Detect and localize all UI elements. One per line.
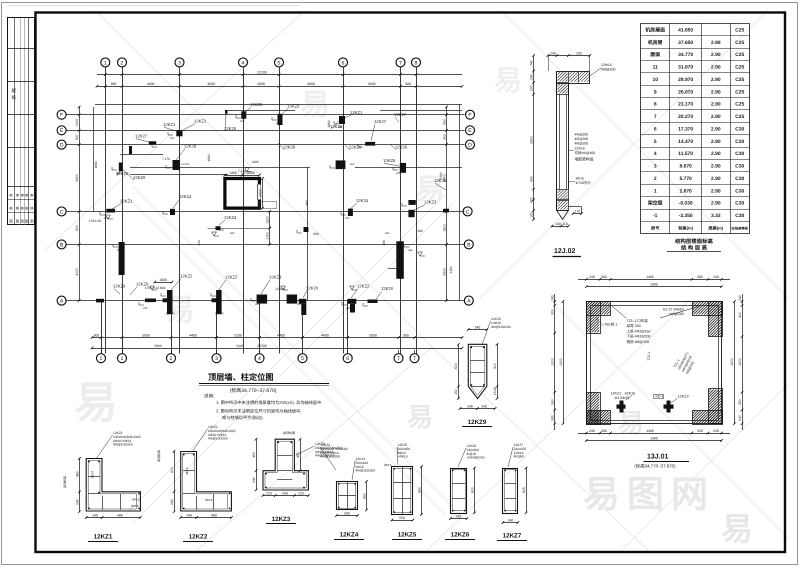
svg-text:12.603: 12.603	[166, 312, 175, 316]
svg-text:900: 900	[75, 225, 79, 231]
left title strip	[8, 18, 35, 225]
plan left dims	[79, 107, 81, 301]
svg-text:5: 5	[654, 139, 657, 145]
column block 28	[368, 300, 378, 304]
column block 24	[287, 295, 298, 304]
svg-text:10: 10	[652, 77, 658, 83]
column block 5	[225, 110, 228, 114]
svg-text:12KZ1: 12KZ1	[163, 122, 176, 127]
detail 12KZ3 T-shaped wall column	[263, 439, 308, 490]
svg-text:2.90: 2.90	[711, 52, 721, 58]
svg-text:5000: 5000	[142, 333, 150, 337]
svg-text:C25: C25	[735, 114, 744, 120]
svg-text:C25: C25	[735, 77, 744, 83]
svg-text:C25: C25	[735, 102, 744, 108]
axis bubble top 1	[101, 58, 110, 67]
svg-text:180: 180	[417, 229, 423, 233]
svg-text:C30: C30	[735, 176, 744, 182]
column block 26	[299, 299, 307, 304]
svg-text:1200: 1200	[75, 119, 79, 127]
svg-text:12KZ6: 12KZ6	[451, 532, 470, 539]
svg-text:C: C	[60, 209, 64, 215]
svg-text:C25: C25	[735, 89, 744, 95]
svg-text:5: 5	[278, 60, 281, 66]
stair well outline	[260, 202, 277, 209]
axis bubble top 8	[412, 58, 421, 67]
svg-text:12Φ14: 12Φ14	[601, 63, 612, 67]
svg-text:易: 易	[721, 511, 753, 547]
svg-text:2.870: 2.870	[680, 188, 693, 194]
svg-text:TZ1-1 口形梁: TZ1-1 口形梁	[627, 318, 649, 323]
svg-text:12K20: 12K20	[306, 286, 319, 291]
svg-text:12K26: 12K26	[395, 145, 408, 150]
column block 32	[443, 209, 449, 213]
svg-text:结构层楼面标高: 结构层楼面标高	[675, 238, 713, 245]
svg-text:170/1.02: 170/1.02	[89, 219, 102, 223]
svg-text:12KZ2: 12KZ2	[180, 274, 193, 279]
column block 33	[96, 299, 104, 303]
svg-text:Φ8@/8: Φ8@/8	[514, 455, 525, 459]
svg-text:层号: 层号	[650, 225, 659, 230]
svg-text:TBL板-1: TBL板-1	[604, 322, 617, 327]
svg-text:C30: C30	[735, 213, 744, 219]
svg-text:31.870: 31.870	[678, 65, 693, 71]
svg-text:41.650: 41.650	[678, 27, 693, 33]
svg-text:B: B	[60, 242, 64, 248]
svg-text:910: 910	[493, 363, 497, 369]
small dimension hooks near columns	[168, 132, 173, 135]
column block 22	[216, 290, 222, 314]
svg-text:砼强度等级: 砼强度等级	[732, 226, 749, 230]
svg-text:2.90: 2.90	[711, 176, 721, 182]
svg-text:600: 600	[345, 217, 350, 220]
svg-text:D: D	[468, 142, 472, 148]
svg-text:11: 11	[653, 65, 658, 71]
svg-text:3: 3	[215, 356, 218, 362]
svg-text:600: 600	[297, 303, 302, 306]
svg-text:箍筋 Φ8@200: 箍筋 Φ8@200	[627, 339, 650, 344]
column block 31	[129, 146, 132, 154]
svg-text:+8Φ16: +8Φ16	[398, 455, 408, 459]
svg-text:12KZ6: 12KZ6	[383, 158, 396, 163]
svg-text:200: 200	[529, 85, 533, 91]
shaft top dim	[225, 175, 260, 177]
grid axis vertical 4	[243, 67, 245, 353]
shaft right dim	[262, 179, 264, 209]
svg-text:140: 140	[186, 513, 192, 517]
column block 12	[365, 142, 375, 146]
column block 16	[348, 209, 353, 216]
svg-text:KD-1: KD-1	[656, 395, 664, 399]
svg-text:12K28: 12K28	[283, 145, 296, 150]
svg-text:2.90: 2.90	[711, 139, 721, 145]
svg-text:6: 6	[654, 126, 657, 132]
svg-text:5400: 5400	[75, 174, 79, 182]
svg-text:12.603: 12.603	[275, 287, 285, 291]
svg-text:Φ8@100/200: Φ8@100/200	[356, 469, 376, 473]
svg-text:2.90: 2.90	[711, 77, 721, 83]
column block 9	[170, 209, 175, 215]
column block 21	[167, 290, 173, 314]
svg-text:架空层: 架空层	[647, 200, 663, 207]
plan top segment dims	[97, 86, 462, 88]
svg-text:12K27: 12K27	[135, 134, 148, 139]
12J.02 top flange	[557, 72, 590, 84]
svg-text:2Φ16: 2Φ16	[205, 498, 213, 502]
elevator shaft walls	[225, 179, 260, 209]
column block 10	[216, 226, 221, 230]
svg-text:2.90: 2.90	[711, 114, 721, 120]
svg-text:240: 240	[456, 514, 462, 518]
svg-text:300: 300	[442, 134, 446, 140]
plan bottom overall dim	[92, 348, 462, 350]
svg-text:150: 150	[454, 389, 458, 395]
svg-text:2.90: 2.90	[711, 126, 721, 132]
column block 30	[350, 304, 355, 313]
svg-text:12KZ5: 12KZ5	[287, 104, 300, 109]
svg-text:2. 图中所示未注明定位尺寸的梁均为轴线居中,: 2. 图中所示未注明定位尺寸的梁均为轴线居中,	[216, 409, 301, 414]
svg-text:650: 650	[362, 493, 366, 499]
12KZ9 bottom dim	[460, 408, 495, 410]
svg-text:12KZ1: 12KZ1	[350, 110, 363, 115]
svg-text:4600: 4600	[207, 82, 215, 86]
grid axis vertical 8	[416, 67, 418, 353]
svg-text:900: 900	[403, 333, 409, 337]
svg-text:2: 2	[121, 60, 124, 66]
svg-text:12KZ7: 12KZ7	[503, 533, 522, 540]
svg-text:240: 240	[475, 325, 481, 329]
svg-text:或与柱墙边平齐(贴边).: 或与柱墙边平齐(贴边).	[222, 415, 264, 420]
svg-text:7: 7	[399, 60, 402, 66]
svg-text:1200: 1200	[551, 358, 555, 366]
12KZ7 section	[503, 469, 518, 514]
svg-text:2900: 2900	[529, 136, 533, 144]
column block 13	[336, 160, 346, 169]
svg-text:12KZ1: 12KZ1	[424, 200, 437, 205]
column block 4	[278, 114, 283, 125]
12KZ4 section	[337, 482, 358, 510]
svg-text:-3.350: -3.350	[679, 213, 693, 219]
svg-text:4100: 4100	[75, 268, 79, 276]
svg-text:1. 图中所示中未注明的墙厚度均为200(±0), 且均轴线: 1. 图中所示中未注明的墙厚度均为200(±0), 且均轴线居中.	[216, 400, 322, 405]
svg-text:12J.02: 12J.02	[554, 248, 576, 255]
svg-text:600: 600	[170, 137, 175, 140]
12KZ9 left dim	[458, 344, 460, 398]
svg-text:380: 380	[305, 200, 309, 206]
svg-text:420: 420	[529, 197, 533, 203]
12KZ6 section	[451, 469, 467, 514]
svg-text:C25: C25	[735, 65, 744, 71]
12KZ3 left dim	[256, 439, 258, 490]
svg-text:C30: C30	[735, 151, 744, 157]
svg-text:450: 450	[252, 452, 256, 458]
svg-text:2600: 2600	[257, 82, 265, 86]
svg-text:2Φ16: 2Φ16	[185, 467, 189, 475]
svg-text:240: 240	[713, 275, 719, 279]
svg-text:筑: 筑	[12, 95, 17, 100]
svg-text:22200: 22200	[257, 344, 267, 348]
svg-text:-1: -1	[653, 213, 658, 219]
svg-text:Φ8@200: Φ8@200	[575, 137, 589, 141]
svg-text:KZ-2T 24Φ18: KZ-2T 24Φ18	[663, 308, 684, 312]
svg-text:4: 4	[654, 151, 657, 157]
level marks	[106, 215, 113, 219]
column block 19	[119, 242, 125, 275]
svg-text:1400: 1400	[251, 160, 258, 164]
svg-text:C25: C25	[735, 52, 744, 58]
svg-text:12KZ4: 12KZ4	[179, 194, 192, 199]
svg-text:240: 240	[738, 415, 742, 421]
svg-text:240: 240	[170, 499, 174, 505]
svg-text:12KZ9: 12KZ9	[468, 419, 487, 426]
svg-text:+Φ8@200: +Φ8@200	[668, 312, 684, 316]
svg-text:240: 240	[550, 51, 556, 55]
svg-text:110: 110	[562, 222, 568, 226]
svg-text:1000: 1000	[159, 278, 167, 282]
svg-text:Φ750支托: Φ750支托	[576, 181, 592, 185]
12KZ2 left dim	[174, 452, 176, 512]
svg-text:825: 825	[522, 487, 526, 493]
13J.01 corner column blocks	[587, 302, 611, 316]
svg-text:344: 344	[117, 249, 122, 252]
svg-text:梁顶标高: 梁顶标高	[157, 450, 161, 462]
svg-text:12K20: 12K20	[381, 286, 394, 291]
svg-text:Φ8@100/200: Φ8@100/200	[113, 443, 133, 447]
svg-text:240: 240	[75, 499, 79, 505]
axis bubble top 5	[275, 58, 284, 67]
svg-text:2.90: 2.90	[711, 102, 721, 108]
column block 15	[408, 200, 415, 205]
12KZ1 left dim	[79, 459, 81, 512]
grid axis vertical 3	[179, 67, 181, 353]
svg-text:5000: 5000	[369, 333, 377, 337]
axis bubble left F	[57, 110, 66, 119]
svg-text:240: 240	[589, 275, 595, 279]
svg-text:350: 350	[738, 399, 742, 405]
svg-text:梁宽 240: 梁宽 240	[627, 323, 641, 328]
svg-text:600: 600	[170, 467, 174, 473]
svg-text:4: 4	[258, 356, 261, 362]
svg-text:1800: 1800	[94, 161, 98, 168]
12KZ3 bottom dim	[263, 495, 308, 497]
svg-text:墙配筋构造: 墙配筋构造	[575, 157, 594, 162]
svg-text:2.90: 2.90	[711, 65, 721, 71]
svg-text:4000: 4000	[307, 82, 315, 86]
svg-text:Φ8@100/200: Φ8@100/200	[491, 325, 511, 329]
column block 1	[176, 130, 182, 136]
12KZ2 bottom dim	[181, 517, 232, 519]
svg-text:240: 240	[529, 74, 533, 80]
svg-text:7: 7	[397, 356, 400, 362]
axis bubble left E	[57, 126, 66, 135]
svg-text:Φ8@200: Φ8@200	[575, 133, 589, 137]
svg-text:600: 600	[338, 126, 343, 129]
svg-text:20.270: 20.270	[678, 114, 693, 120]
column block 17	[304, 227, 309, 232]
svg-text:7: 7	[654, 114, 657, 120]
svg-text:A: A	[60, 298, 64, 304]
svg-text:4: 4	[242, 60, 245, 66]
svg-text:C: C	[466, 209, 470, 215]
svg-text:机房屋面: 机房屋面	[645, 26, 665, 33]
grid axis horizontal E	[67, 244, 465, 246]
svg-text:240: 240	[508, 518, 514, 522]
svg-text:5400: 5400	[439, 172, 443, 179]
svg-text:5: 5	[301, 356, 304, 362]
svg-text:Φ8@200: Φ8@200	[601, 68, 616, 72]
svg-text:600: 600	[454, 363, 458, 369]
svg-text:1: 1	[104, 60, 107, 66]
svg-text:240: 240	[713, 429, 719, 433]
svg-text:5100: 5100	[234, 333, 242, 337]
svg-text:1200: 1200	[730, 358, 734, 366]
svg-text:12KZ2: 12KZ2	[225, 275, 238, 280]
axis bubble bottom 6	[343, 354, 352, 363]
grid axis vertical 2	[122, 67, 124, 353]
axis bubble left B	[57, 240, 66, 249]
svg-text:23.170: 23.170	[678, 102, 693, 108]
svg-text:4100: 4100	[449, 266, 453, 273]
svg-text:300: 300	[551, 309, 555, 315]
svg-text:屋面: 屋面	[650, 52, 660, 58]
svg-text:460: 460	[350, 163, 355, 166]
svg-text:Φ8@200: Φ8@200	[575, 142, 589, 146]
svg-text:220: 220	[266, 491, 272, 495]
axis bubble top 2	[118, 58, 127, 67]
svg-text:12KZ4: 12KZ4	[340, 532, 359, 539]
grid axis vertical 6	[343, 67, 345, 353]
svg-text:12KZ1: 12KZ1	[120, 199, 133, 204]
grid axis horizontal A	[67, 114, 465, 116]
svg-text:3Φ16: 3Φ16	[576, 177, 584, 181]
svg-text:344: 344	[408, 249, 413, 252]
svg-text:140: 140	[467, 404, 473, 408]
svg-text:240: 240	[738, 295, 742, 301]
svg-text:550: 550	[442, 119, 446, 125]
svg-text:C25: C25	[735, 27, 744, 33]
svg-text:1400: 1400	[646, 275, 654, 279]
axis bubble bottom 7	[394, 354, 403, 363]
grid axis vertical 7	[400, 67, 402, 353]
svg-text:300: 300	[601, 429, 607, 433]
svg-text:13.30: 13.30	[493, 387, 497, 396]
svg-text:1200: 1200	[738, 358, 742, 366]
column block 7	[173, 160, 181, 170]
svg-text:12KZ2: 12KZ2	[678, 395, 689, 399]
svg-text:4400: 4400	[277, 333, 285, 337]
svg-text:2Φ14: 2Φ14	[132, 498, 140, 502]
svg-text:9: 9	[654, 89, 657, 95]
svg-text:240: 240	[255, 303, 260, 306]
svg-text:120: 120	[529, 212, 533, 218]
column block 25	[396, 241, 404, 278]
storey elevation table	[641, 23, 750, 25]
svg-text:A: A	[467, 298, 471, 304]
svg-text:460: 460	[313, 232, 319, 236]
svg-text:2.90: 2.90	[711, 201, 721, 207]
svg-text:结 构 层 高: 结 构 层 高	[681, 245, 708, 252]
svg-text:D: D	[60, 142, 64, 148]
svg-text:550: 550	[399, 516, 405, 520]
12KZ5 section	[392, 467, 413, 515]
svg-text:(标高34.770~37.670): (标高34.770~37.670)	[230, 387, 277, 394]
svg-text:4400: 4400	[147, 82, 155, 86]
svg-text:机房层: 机房层	[648, 39, 663, 46]
plan bottom segment dims	[92, 337, 462, 339]
svg-text:3: 3	[178, 60, 181, 66]
grid axis horizontal F	[67, 300, 465, 302]
right axis bubbles	[466, 110, 475, 119]
svg-text:5.770: 5.770	[680, 176, 693, 182]
axis bubble bottom 4	[255, 354, 264, 363]
svg-text:3300: 3300	[442, 268, 446, 276]
svg-text:240: 240	[282, 491, 288, 495]
svg-text:350: 350	[551, 399, 555, 405]
svg-text:E: E	[60, 128, 64, 134]
svg-text:2Φ14: 2Φ14	[384, 463, 392, 467]
svg-text:C30: C30	[735, 126, 744, 132]
svg-text:4400: 4400	[189, 333, 197, 337]
svg-text:易: 易	[74, 379, 118, 428]
svg-text:12KZ1: 12KZ1	[94, 534, 113, 541]
column block 3	[241, 111, 246, 119]
column block 20	[145, 299, 156, 303]
svg-text:3: 3	[654, 164, 657, 170]
svg-text:F: F	[468, 113, 471, 119]
svg-text:1400: 1400	[650, 283, 658, 287]
svg-text:200: 200	[576, 51, 582, 55]
svg-text:344: 344	[197, 240, 201, 246]
svg-text:2.90: 2.90	[711, 151, 721, 157]
shaft door gap	[257, 185, 260, 200]
svg-text:5000: 5000	[154, 344, 161, 348]
plan right dims	[446, 107, 448, 301]
svg-text:12K24: 12K24	[356, 198, 369, 203]
svg-text:12KZ1: 12KZ1	[194, 119, 207, 124]
column block 23	[257, 295, 268, 304]
svg-text:6: 6	[346, 356, 349, 362]
svg-text:12K28: 12K28	[184, 144, 197, 149]
column block 6	[119, 163, 123, 172]
detail 12KZ9 wall column with pointed end	[468, 344, 487, 398]
svg-text:26.070: 26.070	[678, 89, 693, 95]
svg-text:2: 2	[654, 176, 657, 182]
svg-text:240: 240	[276, 122, 281, 125]
axis bubble top 4	[239, 58, 248, 67]
svg-text:梁顶标高: 梁顶标高	[283, 431, 295, 435]
svg-text:1800: 1800	[442, 224, 446, 232]
svg-text:13J.01: 13J.01	[647, 454, 669, 461]
svg-text:360: 360	[601, 275, 607, 279]
svg-text:240: 240	[252, 477, 256, 483]
13J.01 dims	[578, 279, 730, 281]
svg-text:7.170: 7.170	[162, 157, 170, 161]
svg-text:240: 240	[143, 307, 148, 310]
svg-text:550: 550	[529, 176, 533, 182]
svg-text:1200: 1200	[559, 358, 563, 366]
grid axis vertical 1	[105, 67, 107, 353]
svg-text:12KZ4: 12KZ4	[224, 215, 237, 220]
svg-text:2.90: 2.90	[711, 89, 721, 95]
svg-text:12KZ2: 12KZ2	[357, 284, 370, 289]
svg-text:易: 易	[300, 89, 330, 122]
svg-text:5100: 5100	[236, 344, 243, 348]
svg-text:480: 480	[117, 513, 123, 517]
svg-text:12K25: 12K25	[224, 126, 237, 131]
svg-text:2.88: 2.88	[711, 40, 721, 46]
column block 18	[408, 210, 414, 217]
svg-text:12KZ2: 12KZ2	[189, 534, 208, 541]
